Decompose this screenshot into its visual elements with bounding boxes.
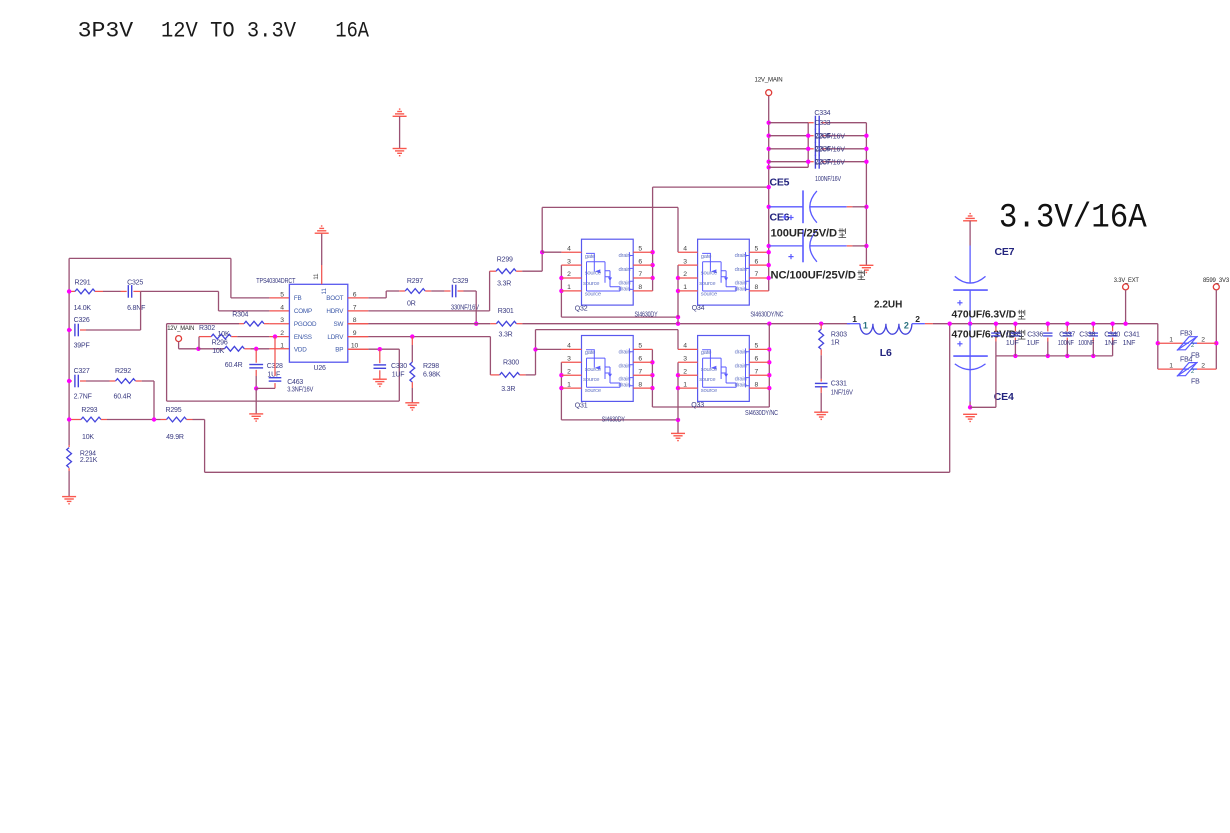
resistor R302 10K (VDD row): [198, 348, 224, 350]
node dot: [1013, 354, 1017, 358]
wire port to rail: [1125, 290, 1127, 324]
svg-text:1: 1: [1169, 337, 1173, 344]
node dot: [767, 165, 771, 169]
svg-text:6.8NF: 6.8NF: [127, 305, 145, 312]
svg-text:C330: C330: [391, 363, 407, 370]
pin 10 BP: [348, 348, 369, 350]
node dot: [676, 315, 680, 319]
svg-text:SI4630DY: SI4630DY: [602, 417, 625, 424]
svg-text:2: 2: [915, 314, 920, 324]
svg-text:5: 5: [755, 343, 759, 350]
svg-text:5: 5: [755, 245, 759, 252]
svg-text:2: 2: [683, 368, 687, 375]
svg-text:C463: C463: [287, 379, 303, 386]
Q33 pin stub: [678, 387, 698, 389]
svg-text:Q31: Q31: [575, 403, 588, 410]
svg-text:5: 5: [638, 245, 642, 252]
svg-text:5: 5: [280, 291, 284, 298]
resistor R299 3.3R: [490, 270, 497, 272]
svg-text:2: 2: [567, 368, 571, 375]
wire upper sources rail: [561, 316, 678, 318]
svg-text:FB: FB: [1191, 379, 1200, 386]
wire Q31 source bus: [560, 362, 562, 420]
svg-text:4: 4: [567, 343, 571, 350]
node dot: [994, 322, 998, 326]
node dot: [650, 360, 654, 364]
node dot: [864, 205, 868, 209]
node dot: [948, 322, 952, 326]
svg-text:C327: C327: [74, 368, 90, 375]
capacitor C329 330NF/16V: [431, 290, 444, 292]
node dot: [676, 418, 680, 422]
svg-text:Q32: Q32: [575, 305, 588, 312]
svg-text:L6: L6: [880, 347, 892, 359]
svg-text:22UF/16V: 22UF/16V: [815, 146, 846, 153]
node dot: [152, 417, 156, 421]
svg-text:VDD: VDD: [294, 346, 307, 353]
svg-text:22UF/16V: 22UF/16V: [815, 133, 846, 140]
ground: [373, 378, 387, 380]
node dot: [767, 244, 771, 248]
ground: [671, 432, 685, 434]
svg-text:2.2UH: 2.2UH: [874, 300, 902, 311]
node dot: [1123, 322, 1127, 326]
svg-text:4: 4: [567, 245, 571, 252]
node dot: [1046, 322, 1050, 326]
svg-text:3: 3: [683, 258, 687, 265]
Q34 pin stub: [678, 290, 698, 292]
wire port to FB beads: [1215, 290, 1217, 369]
electrolytic capacitor CE7 470UF/6.3V: [969, 221, 971, 246]
wire Q32 drain bus to 12V: [652, 187, 654, 291]
node dot: [559, 386, 563, 390]
svg-text:8: 8: [755, 284, 759, 291]
node dot: [410, 334, 414, 338]
svg-text:10K: 10K: [212, 348, 224, 355]
transistor Q32 (SI4630DY): [582, 239, 634, 305]
svg-text:470UF/6.3V/D: 470UF/6.3V/D: [952, 309, 1017, 321]
wire feedback sense loop (R295 to output node): [193, 419, 205, 421]
svg-text:7: 7: [353, 304, 357, 311]
svg-text:3.3NF/16V: 3.3NF/16V: [287, 387, 313, 394]
capacitor C326 39PF: [69, 329, 72, 331]
transistor Q33 (SI4630DY): [698, 336, 750, 402]
wire port to VDD row: [178, 342, 180, 349]
resistor R301 3.3R: [490, 323, 496, 325]
svg-text:R296: R296: [212, 339, 228, 346]
svg-text:2: 2: [1201, 362, 1205, 369]
capacitor C463 3.3NF/16V: [274, 337, 276, 376]
svg-text:3: 3: [567, 356, 571, 363]
Q31 pin stub: [561, 361, 581, 363]
node dot: [676, 373, 680, 377]
svg-text:39PF: 39PF: [74, 343, 90, 350]
capacitor C337: [1047, 324, 1049, 328]
wire FB bus to pin FB: [69, 257, 231, 259]
svg-text:3.3R: 3.3R: [501, 386, 515, 393]
node dot: [254, 386, 258, 390]
svg-text:FB: FB: [294, 295, 302, 302]
svg-text:C336: C336: [1027, 331, 1043, 338]
svg-text:C329: C329: [452, 278, 468, 285]
svg-text:12V_MAIN: 12V_MAIN: [167, 325, 194, 332]
svg-text:100NF: 100NF: [1058, 340, 1074, 347]
svg-text:2: 2: [567, 271, 571, 278]
svg-text:1: 1: [567, 284, 571, 291]
node dot: [676, 386, 680, 390]
svg-text:3.3R: 3.3R: [497, 280, 511, 287]
wire C329 to SW node: [464, 290, 477, 292]
wire Q34 source bus: [677, 265, 679, 317]
node dot: [67, 417, 71, 421]
node dot: [767, 160, 771, 164]
wire SW/3V3 rail L6 to FB corner: [933, 323, 1158, 325]
capacitor C327 2.7NF: [69, 380, 72, 382]
pin 6 BOOT: [348, 297, 369, 299]
resistor R294 2.21K: [68, 445, 70, 447]
capacitor C338: [1066, 324, 1068, 328]
svg-text:U26: U26: [314, 365, 327, 372]
svg-text:2: 2: [1201, 337, 1205, 344]
Q31 pin stub: [561, 348, 581, 350]
svg-text:2.7NF: 2.7NF: [74, 394, 92, 401]
node dot: [767, 121, 771, 125]
svg-text:1: 1: [280, 343, 284, 350]
svg-text:SI4630DY/NC: SI4630DY/NC: [750, 312, 783, 319]
capacitor C328 1UF: [255, 349, 257, 363]
node dot: [67, 379, 71, 383]
wire to Q31 gate: [536, 348, 562, 350]
wire EN/SS branch vertical: [198, 337, 200, 349]
node dot: [806, 160, 810, 164]
svg-text:1: 1: [852, 314, 857, 324]
svg-text:R302: R302: [199, 325, 215, 332]
node dot: [767, 386, 771, 390]
node dot: [559, 276, 563, 280]
svg-text:HDRV: HDRV: [326, 308, 344, 315]
svg-text:PGOOD: PGOOD: [294, 321, 317, 328]
ground below CE4: [963, 413, 977, 415]
port 8599_3V3 circle: [1213, 284, 1219, 290]
Q33 pin stub: [678, 348, 698, 350]
svg-text:1: 1: [567, 381, 571, 388]
wire HDRV pin to R299: [368, 310, 489, 312]
svg-text:3: 3: [280, 317, 284, 324]
svg-text:8: 8: [353, 317, 357, 324]
electrolytic capacitor CE6 (NC): [769, 245, 803, 247]
svg-text:3.3R: 3.3R: [499, 332, 513, 339]
node dot: [767, 205, 771, 209]
svg-text:R297: R297: [407, 278, 423, 285]
svg-text:C335: C335: [1006, 331, 1022, 338]
svg-text:10K: 10K: [82, 434, 94, 441]
node dot: [767, 250, 771, 254]
svg-text:TPS40304DRCT: TPS40304DRCT: [256, 278, 296, 285]
svg-text:10: 10: [351, 343, 359, 350]
node dot: [767, 276, 771, 280]
svg-text:6.98K: 6.98K: [423, 371, 441, 378]
svg-text:6: 6: [638, 356, 642, 363]
node dot: [676, 276, 680, 280]
node dot: [650, 250, 654, 254]
resistor R300 3.3R: [490, 374, 499, 376]
svg-text:5: 5: [638, 343, 642, 350]
inverted ground above U26: [315, 232, 329, 234]
svg-text:R300: R300: [503, 360, 519, 367]
capacitor C330 1UF (BP bypass): [379, 349, 381, 363]
wire Q31 drain bus: [651, 349, 653, 407]
svg-text:R303: R303: [831, 331, 847, 338]
svg-text:1UF: 1UF: [1006, 340, 1019, 347]
node dot: [1065, 354, 1069, 358]
resistor R304 (PGOOD pull-up): [239, 323, 244, 325]
power tie symbol: inverted ground: [393, 115, 407, 117]
ground: [405, 402, 419, 404]
Q32 pin stub: [561, 251, 581, 253]
svg-text:2.21K: 2.21K: [80, 457, 98, 464]
wire Q32 source bus: [560, 265, 562, 317]
resistor R292 60.4R: [110, 380, 116, 382]
svg-text:C333: C333: [814, 120, 830, 127]
capacitor C336: [1014, 324, 1016, 328]
svg-text:C337: C337: [1059, 331, 1075, 338]
svg-text:100UF/25V/D: 100UF/25V/D: [771, 228, 838, 240]
node dot: [767, 263, 771, 267]
node dot: [968, 405, 972, 409]
svg-text:CE7: CE7: [995, 246, 1015, 258]
svg-text:SW: SW: [334, 321, 344, 328]
svg-text:1NF: 1NF: [1104, 340, 1117, 347]
ground: [249, 413, 263, 415]
node dot: [806, 147, 810, 151]
wire R292 to R293 row: [142, 380, 154, 382]
node dot: [1156, 341, 1160, 345]
svg-text:FB: FB: [1191, 353, 1200, 360]
node dot: [767, 147, 771, 151]
svg-text:3: 3: [683, 356, 687, 363]
svg-text:7: 7: [638, 271, 642, 278]
resistor R303 1R: [820, 324, 822, 330]
resistor R296 10K (EN/SS row): [199, 336, 211, 338]
Q31 pin stub: [561, 387, 581, 389]
wire R300 to lower gate rail: [526, 374, 536, 376]
node dot: [1214, 341, 1218, 345]
node dot: [650, 373, 654, 377]
wire PGOOD pull-up loop to BP: [166, 324, 168, 401]
wire inner vertical joining bypass caps: [807, 123, 809, 168]
Q32 pin stub: [561, 290, 581, 292]
wire R296 to EN/SS pin: [237, 336, 269, 338]
svg-text:11: 11: [321, 288, 328, 295]
pin 7 HDRV: [348, 310, 369, 312]
node dot: [273, 334, 277, 338]
node dot: [767, 185, 771, 189]
ferrite bead FB3: [1158, 342, 1183, 344]
svg-text:7: 7: [755, 368, 759, 375]
wire C328 bottom to ground: [255, 388, 257, 414]
node dot: [1013, 322, 1017, 326]
node dot: [196, 347, 200, 351]
transistor Q31 (SI4630DY): [582, 336, 634, 402]
svg-text:3.3V/16A: 3.3V/16A: [999, 200, 1147, 238]
svg-text:C340: C340: [1104, 331, 1120, 338]
wire PGOOD to R304: [167, 323, 239, 325]
ground: [814, 411, 828, 413]
svg-text:1: 1: [683, 284, 687, 291]
inductor L6 2.2UH: [847, 323, 860, 325]
svg-text:1NF: 1NF: [1123, 340, 1136, 347]
svg-text:SI4630DY/NC: SI4630DY/NC: [745, 410, 778, 417]
svg-text:SI4630DY: SI4630DY: [635, 312, 658, 319]
node dot: [767, 360, 771, 364]
node dot: [67, 328, 71, 332]
capacitor C340: [1092, 324, 1094, 328]
ground: [62, 496, 76, 498]
node dot: [676, 322, 680, 326]
pin 11 pad (top) with ground: [321, 265, 323, 284]
node dot: [1091, 322, 1095, 326]
svg-text:C338: C338: [1079, 331, 1095, 338]
svg-text:BOOT: BOOT: [326, 295, 343, 302]
resistor R297 0R: [399, 290, 405, 292]
Q33 pin stub: [678, 361, 698, 363]
capacitor C341: [1112, 324, 1114, 328]
capacitor C335: [995, 324, 997, 328]
port 12V_MAIN circle: [176, 336, 182, 342]
svg-text:0R: 0R: [407, 300, 416, 307]
op-amp/controller U26 TPS40304DRCT box: [289, 284, 347, 362]
wire C325 to COMP network: [141, 290, 219, 292]
svg-text:CE4: CE4: [994, 391, 1014, 403]
electrolytic capacitor CE4 470UF/6.3V: [969, 324, 971, 356]
power tie symbol: ground: [393, 148, 407, 150]
Q31 pin stub: [561, 374, 581, 376]
node dot: [864, 244, 868, 248]
svg-text:8: 8: [755, 381, 759, 388]
svg-text:R291: R291: [75, 280, 91, 287]
resistor R291 14.0K: [69, 290, 75, 292]
svg-text:100NF: 100NF: [1078, 340, 1094, 347]
svg-text:R292: R292: [115, 368, 131, 375]
svg-text:10K: 10K: [218, 331, 230, 338]
wire lower gate rail: [536, 329, 679, 331]
svg-text:8: 8: [638, 284, 642, 291]
svg-text:1UF: 1UF: [1027, 340, 1040, 347]
svg-text:Q34: Q34: [692, 305, 705, 312]
node dot: [474, 322, 478, 326]
wire BP row: [348, 348, 369, 350]
svg-text:C341: C341: [1124, 331, 1140, 338]
svg-text:R295: R295: [166, 407, 182, 414]
svg-text:C331: C331: [831, 380, 847, 387]
svg-text:R304: R304: [232, 311, 248, 318]
Q32 pin stub: [561, 264, 581, 266]
wire CE4 return to cap rail: [970, 406, 996, 408]
wire C463 to C328 bottom: [256, 387, 275, 389]
wire lower sources link to ground: [561, 419, 678, 421]
capacitor C337 (12V bypass): [769, 161, 809, 163]
port 3.3V_EXT circle: [1123, 284, 1129, 290]
port 12V_MAIN circle (top): [766, 90, 772, 96]
node dot: [767, 322, 771, 326]
svg-text:Q33: Q33: [691, 402, 704, 409]
svg-text:2: 2: [683, 271, 687, 278]
wire LDRV pin to R300: [348, 336, 369, 338]
node dot: [968, 322, 972, 326]
svg-text:1: 1: [683, 381, 687, 388]
node dot: [540, 250, 544, 254]
wire gate rail upper FETs: [541, 207, 543, 252]
svg-text:C334: C334: [814, 110, 830, 117]
capacitor C336 (12V bypass): [769, 148, 809, 150]
svg-text:22UF/16V: 22UF/16V: [815, 159, 846, 166]
node dot: [533, 347, 537, 351]
wire SW pin to R301: [348, 323, 369, 325]
node dot: [864, 134, 868, 138]
node FB: left vertical bus: [68, 258, 70, 445]
svg-text:NC/100UF/25V/D: NC/100UF/25V/D: [771, 270, 857, 282]
svg-text:49.9R: 49.9R: [166, 434, 184, 441]
wire rail corner down to beads: [1157, 324, 1159, 369]
svg-text:LDRV: LDRV: [327, 334, 344, 341]
svg-text:C325: C325: [127, 280, 143, 287]
svg-text:R298: R298: [423, 363, 439, 370]
svg-text:8599_3V3: 8599_3V3: [1203, 277, 1230, 284]
svg-text:3: 3: [567, 258, 571, 265]
node dot: [650, 386, 654, 390]
svg-text:2: 2: [904, 320, 909, 330]
node dot: [378, 347, 382, 351]
transistor Q34 (SI4630DY): [698, 239, 750, 305]
svg-text:EN/SS: EN/SS: [294, 334, 312, 341]
svg-text:FB3: FB3: [1180, 331, 1193, 338]
wire Q33 drain bus: [768, 324, 770, 407]
node dot: [559, 289, 563, 293]
ground: [859, 264, 873, 266]
node dot: [1091, 354, 1095, 358]
svg-text:8: 8: [638, 381, 642, 388]
wire gate dot to Q32 pin 4: [542, 251, 561, 253]
svg-text:CE5: CE5: [770, 177, 790, 189]
svg-text:4: 4: [280, 304, 284, 311]
svg-text:BP: BP: [335, 346, 343, 353]
svg-text:6: 6: [755, 356, 759, 363]
svg-text:11: 11: [313, 273, 320, 280]
svg-text:16A: 16A: [335, 19, 369, 44]
node dot: [1065, 322, 1069, 326]
svg-text:1NF/16V: 1NF/16V: [831, 389, 853, 396]
node dot: [767, 347, 771, 351]
resistor R295 49.9R: [161, 419, 167, 421]
wire output cap bottom rail: [996, 355, 1113, 357]
node dot: [650, 276, 654, 280]
electrolytic capacitor CE5 100UF/25V: [769, 206, 803, 208]
svg-text:1R: 1R: [831, 340, 840, 347]
Q32 pin stub: [561, 277, 581, 279]
svg-text:6: 6: [353, 291, 357, 298]
pin 8 SW: [348, 323, 369, 325]
node dot: [767, 134, 771, 138]
svg-text:60.4R: 60.4R: [225, 362, 243, 369]
svg-text:7: 7: [755, 271, 759, 278]
capacitor C331 1NF/16V: [820, 379, 822, 382]
node dot: [559, 373, 563, 377]
Q34 pin stub: [678, 277, 698, 279]
svg-text:C326: C326: [74, 317, 90, 324]
wire C325/C326 junction vertical: [140, 291, 142, 330]
node dot: [650, 263, 654, 267]
svg-text:9: 9: [353, 330, 357, 337]
